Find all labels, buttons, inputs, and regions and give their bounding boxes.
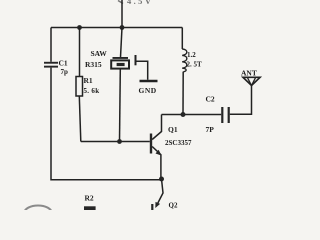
svg-text:R2: R2 <box>85 194 94 203</box>
wire Q1 base line <box>81 141 150 143</box>
node VCC: supply label 4.5V (clipped at top) <box>127 0 153 6</box>
wire R1 bottom <box>79 96 81 142</box>
svg-text:C2: C2 <box>206 95 215 104</box>
svg-text:7P: 7P <box>206 125 215 134</box>
node junction dot L/C2/Q1 <box>181 112 186 117</box>
wire to ground <box>137 61 148 80</box>
transistor Q1 2SC3357 <box>150 134 152 154</box>
node junction dot rail/supply <box>120 25 125 30</box>
wire SAW bottom <box>119 69 122 142</box>
svg-text:2SC3357: 2SC3357 <box>165 139 192 147</box>
node junction dot emitter/bottom rail <box>159 177 164 182</box>
svg-text:C1: C1 <box>59 59 68 68</box>
capacitor C1 <box>44 62 58 68</box>
resistor R1 <box>76 77 83 97</box>
resonator case plate <box>135 55 137 65</box>
component oval (partial, next figure) <box>25 206 52 220</box>
svg-text:4.5V: 4.5V <box>127 0 153 6</box>
svg-text:R315: R315 <box>85 60 102 69</box>
wire collector node line <box>162 114 222 116</box>
wire SAW top <box>121 28 123 58</box>
svg-text:SAW: SAW <box>91 49 108 58</box>
antenna ANT <box>243 77 260 85</box>
wire supply vertical <box>121 0 123 28</box>
svg-text:2. 5T: 2. 5T <box>187 61 203 69</box>
svg-text:R1: R1 <box>84 76 93 85</box>
node junction dot SAW/base <box>117 139 122 144</box>
wire inductor bottom <box>182 72 184 115</box>
svg-text:1.2: 1.2 <box>187 51 196 59</box>
svg-text:Q2: Q2 <box>169 202 178 210</box>
svg-text:ANT: ANT <box>241 69 257 78</box>
wire C1 top <box>50 28 52 62</box>
wire top rail <box>51 27 182 29</box>
transistor Q2 (partial) <box>157 179 163 206</box>
ground <box>140 80 158 83</box>
svg-text:7p: 7p <box>61 68 69 76</box>
wire C1 bottom / bottom rail <box>51 68 162 180</box>
capacitor C2 <box>221 107 230 123</box>
wire R1 top <box>79 28 81 77</box>
node junction dot rail/R1 <box>77 25 82 30</box>
inductor L1 1.2 2.5T <box>181 28 183 50</box>
svg-text:GND: GND <box>139 86 157 95</box>
svg-text:5. 6k: 5. 6k <box>84 87 100 95</box>
resonator SAW R315 <box>111 57 129 69</box>
wire C2 to antenna <box>230 86 252 115</box>
svg-text:Q1: Q1 <box>168 125 178 134</box>
